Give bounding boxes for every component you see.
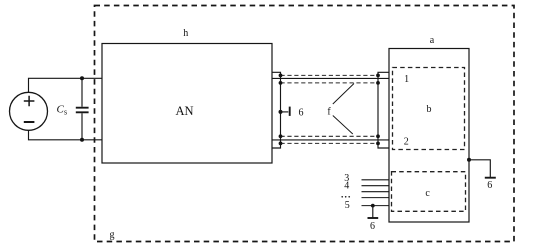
shield f: bottom cable lower dashed: [281, 142, 379, 144]
connector plate right (bulkhead at receiver a): [378, 72, 389, 148]
wire: top coax centre conductor: [272, 77, 389, 79]
node on bus line 5: [371, 204, 375, 208]
node: bottom junction of Cs: [80, 138, 84, 142]
svg-text:s: s: [64, 108, 67, 117]
shield f: top cable lower dashed: [281, 82, 379, 84]
svg-text:a: a: [430, 35, 435, 46]
node on right edge of box a: [467, 158, 471, 162]
svg-text:1: 1: [404, 74, 409, 85]
svg-text:4: 4: [344, 181, 349, 192]
svg-text:5: 5: [345, 200, 350, 211]
block AN (artificial network box h): [102, 44, 272, 164]
connector plate left (bulkhead at AN output): [272, 72, 281, 148]
svg-text:AN: AN: [175, 104, 193, 118]
feedthrough capacitor 6 on left connector: [279, 110, 283, 114]
voltage source V1: [10, 92, 48, 130]
node dots on right connector: [376, 74, 380, 146]
dashed sub-block c (control stage): [392, 172, 466, 212]
shield f: bottom cable upper dashed: [281, 135, 379, 137]
svg-text:6: 6: [299, 108, 304, 119]
ellipsis between bus labels: [341, 196, 350, 198]
wire source top: [29, 78, 103, 92]
wire source bottom: [29, 130, 103, 140]
dashed sub-block b (input stage, ports 1/2): [393, 68, 465, 150]
svg-text:6: 6: [370, 221, 375, 232]
svg-text:2: 2: [404, 137, 409, 148]
svg-text:b: b: [427, 104, 432, 115]
shield f: top cable upper dashed: [281, 74, 379, 76]
node dots on left connector: [279, 74, 283, 146]
wire: bottom coax centre conductor: [272, 139, 389, 141]
svg-text:6: 6: [487, 180, 492, 191]
control bus wires 3..5 into box a: [362, 180, 390, 206]
node: top junction of Cs: [80, 76, 84, 80]
svg-text:f: f: [327, 106, 331, 117]
receiver box a: [389, 49, 469, 223]
svg-text:h: h: [183, 28, 188, 39]
ground 6 below bus: [372, 206, 374, 218]
svg-text:c: c: [425, 188, 430, 199]
ground 6 at receiver case: [469, 160, 490, 177]
enclosure g (outer shielded-room dashed boundary): [95, 6, 515, 242]
capacitor Cs: [76, 78, 89, 140]
svg-text:g: g: [110, 230, 115, 241]
